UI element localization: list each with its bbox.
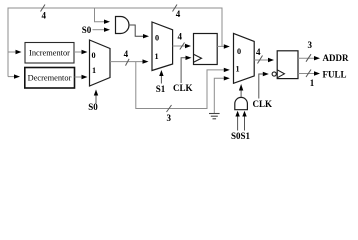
decrementor block U2 — [25, 68, 75, 89]
wire Incrementor output to mux M1 input 0 — [74, 50, 88, 54]
svg-text:0: 0 — [237, 47, 241, 56]
wire M2 output to register R1 data input — [173, 44, 191, 48]
bus width slash with value label 4 (top right) — [173, 5, 181, 19]
bus width slash with value label 4 (top left) — [41, 5, 47, 21]
svg-text:ADDR: ADDR — [323, 53, 349, 63]
svg-text:1: 1 — [92, 66, 96, 75]
svg-text:4: 4 — [176, 9, 181, 19]
bus width slash with value label 4 (M2 output) — [178, 31, 185, 49]
ground — [209, 114, 220, 119]
wire S0 into AND gate G1 lower input — [93, 28, 111, 32]
wire from top feedback bus into AND gate G1 upper input — [95, 8, 111, 24]
bus width slash with value label 4 (M3 output) — [256, 47, 263, 64]
svg-text:CLK: CLK — [173, 83, 193, 93]
wire CLK to register R1 clock pin — [181, 56, 191, 83]
wire S0 input into G2 — [235, 111, 239, 131]
wire FULL output — [298, 71, 320, 75]
svg-text:3: 3 — [308, 40, 313, 50]
register R1 with clock triangle — [194, 34, 218, 65]
wire from ground into mux M3 lower input — [214, 76, 230, 113]
incrementor block U1 — [25, 43, 74, 64]
svg-text:Decrementor: Decrementor — [28, 74, 72, 83]
svg-text:CLK: CLK — [253, 99, 273, 109]
wire G1 output to mux M2 input 0 — [129, 25, 149, 38]
bus width slash with value label 3 (branch bus) — [167, 105, 172, 123]
wire Decrementor output to mux M1 input 1 — [75, 75, 88, 79]
and gate G2 — [235, 97, 248, 109]
wire into Incrementor input — [8, 50, 22, 54]
svg-text:S0S1: S0S1 — [231, 131, 251, 141]
svg-text:1: 1 — [310, 78, 315, 88]
and gate G1 — [116, 17, 129, 34]
bus width slash with value label 4 (M1 output) — [124, 49, 130, 65]
wire M1 output to mux M2 input 1 — [110, 59, 149, 63]
mux M1 — [90, 40, 111, 86]
svg-text:S0: S0 — [82, 25, 92, 35]
svg-text:S0: S0 — [88, 102, 98, 112]
wire 3-bit branch from node J1 down and across to mux M3 input 1 — [136, 62, 230, 109]
svg-text:0: 0 — [91, 51, 95, 60]
svg-text:S1: S1 — [156, 84, 166, 94]
svg-text:1: 1 — [154, 52, 158, 61]
wire CLK to register R2 clock pin — [259, 72, 269, 99]
register R2 with clock triangle — [277, 51, 298, 79]
wire M3 output to register R2 data input — [254, 58, 274, 62]
bus width slash with value label 1 (FULL) — [306, 70, 315, 88]
clock inversion bubble on R2 — [272, 72, 276, 76]
svg-text:4: 4 — [42, 11, 47, 21]
svg-text:4: 4 — [178, 31, 183, 41]
svg-text:FULL: FULL — [323, 69, 347, 79]
wire feedback bus from R1 output over the top to Incrementor/Decrementor inputs — [8, 8, 222, 77]
svg-text:Incrementor: Incrementor — [29, 49, 70, 58]
mux M3 — [234, 33, 255, 83]
svg-text:0: 0 — [155, 34, 159, 43]
mux M2 — [152, 22, 173, 71]
wire R1 output to mux M3 input 0 (junction with feedback bus) — [217, 44, 230, 48]
wire ADDR output — [298, 56, 320, 60]
svg-text:4: 4 — [124, 49, 129, 59]
wire G2 output up into mux M3 select — [239, 84, 243, 97]
wire select arrow into M2 — [159, 70, 163, 84]
bus width slash with value label 3 (ADDR) — [306, 40, 313, 62]
wire S1 input into G2 — [242, 111, 246, 131]
svg-text:4: 4 — [256, 47, 261, 57]
wire into Decrementor input — [8, 74, 20, 78]
svg-text:3: 3 — [167, 113, 172, 123]
wire select arrow into M1 — [94, 90, 98, 104]
svg-text:1: 1 — [235, 64, 239, 73]
